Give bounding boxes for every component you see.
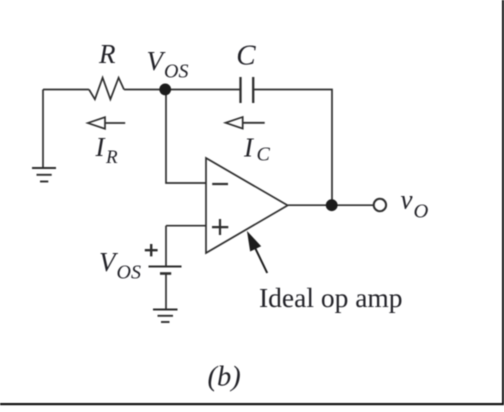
svg-text:O: O <box>414 201 429 223</box>
svg-text:C: C <box>257 144 271 166</box>
svg-text:OS: OS <box>164 61 188 83</box>
svg-text:v: v <box>401 185 413 215</box>
svg-text:R: R <box>98 39 116 69</box>
svg-text:C: C <box>236 39 256 71</box>
svg-text:(b): (b) <box>208 362 241 393</box>
svg-text:R: R <box>105 147 118 168</box>
svg-text:Ideal op amp: Ideal op amp <box>259 282 403 313</box>
svg-text:OS: OS <box>117 262 141 284</box>
